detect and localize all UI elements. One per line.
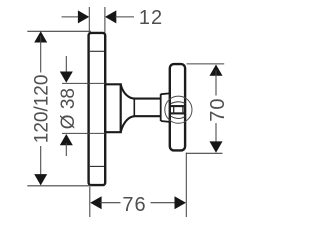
dim 120/120 top extension line: [27, 30, 91, 32]
dim 70 top extension line: [187, 63, 225, 65]
plate inner step line upper: [90, 50, 104, 52]
dim 12 left tail line: [62, 16, 81, 18]
dim 76 right extension line: [185, 153, 187, 218]
svg-text:120/120: 120/120: [32, 75, 53, 144]
svg-text:Ø 38: Ø 38: [58, 88, 79, 129]
neck start edge: [133, 98, 135, 117]
dim 76 left extension line: [89, 187, 91, 217]
hub collar bottom edge: [161, 120, 170, 123]
escutcheon plate outline (side view): [89, 33, 106, 185]
dim 76 left arrow: [90, 196, 101, 209]
dim O38 lower line: [65, 143, 67, 156]
hub junction disc edge: [160, 94, 162, 121]
trumpet taper bottom edge: [121, 116, 161, 132]
logo plate bottom edge: [171, 112, 185, 114]
valve stem base flange (O38): [105, 84, 121, 132]
dim 12 right tail line: [115, 16, 134, 18]
dim 12 right extension line: [104, 7, 106, 33]
svg-text:12: 12: [139, 7, 163, 29]
dim 120/120 upper line: [40, 36, 42, 73]
dim O38 bottom extension line: [62, 132, 105, 134]
hub boss outer circle: [165, 96, 192, 123]
trumpet taper top edge: [121, 84, 161, 98]
dim 76 right tail line: [151, 202, 177, 204]
dim 120/120 lower line: [40, 146, 42, 180]
cross handle bar (side view): [170, 64, 185, 150]
dim O38 lower arrow: [60, 134, 73, 145]
logo plate left edge: [173, 106, 175, 114]
hub boss inner top arc: [171, 102, 185, 104]
dim 76 right arrow: [175, 196, 187, 209]
dim 12 right arrow: [105, 10, 116, 23]
dim 70 upper line: [215, 70, 217, 96]
dim 70 top arrow: [210, 65, 223, 76]
dim 12 left extension line: [88, 7, 90, 33]
logo plate top edge: [171, 105, 185, 107]
hub collar top edge: [161, 92, 170, 95]
dim 70 bottom arrow: [210, 141, 223, 152]
dim O38 upper line: [65, 56, 67, 74]
logo plate right edge: [182, 106, 184, 114]
dim 120/120 bottom extension line: [27, 185, 91, 187]
dim 120/120 top arrow: [34, 31, 47, 42]
hub boss inner bottom arc: [171, 116, 185, 118]
dim 70 lower line: [215, 123, 217, 147]
dim 76 left tail line: [100, 202, 121, 204]
svg-text:70: 70: [207, 97, 229, 121]
dim 12 left arrow: [78, 10, 89, 23]
dim 120/120 bottom arrow: [34, 174, 47, 185]
dim O38 upper arrow: [60, 72, 73, 83]
dim 70 bottom extension line: [187, 152, 223, 154]
plate inner step line lower: [90, 165, 104, 167]
dim O38 top extension line: [62, 82, 105, 84]
svg-text:76: 76: [122, 194, 146, 216]
